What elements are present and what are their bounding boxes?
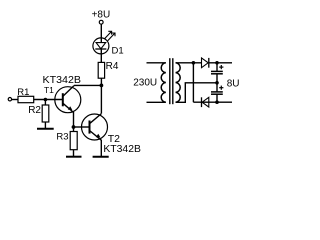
- wire input to R1: [12, 99, 18, 101]
- wire +8V to D1: [100, 24, 102, 38]
- ground under R2: [37, 128, 54, 130]
- wire D1 to R4: [100, 54, 102, 63]
- LED D1: [93, 38, 109, 54]
- node junction R1/R2: [44, 98, 48, 102]
- resistor R2: [42, 105, 49, 122]
- wire diode D2 to C1 node: [209, 62, 232, 64]
- wire R2 to ground: [44, 122, 46, 129]
- terminal +8V: [99, 20, 103, 24]
- svg-text:R3: R3: [56, 132, 68, 143]
- transformer TR primary lead bottom: [147, 101, 166, 103]
- svg-text:T1: T1: [44, 85, 54, 95]
- svg-text:8U: 8U: [227, 79, 240, 90]
- wire bottom rail: [193, 101, 232, 103]
- node between capacitors: [215, 81, 219, 85]
- transformer primary winding: [161, 63, 166, 103]
- transistor T2: [82, 114, 108, 141]
- diode D2 (top, pointing right): [202, 58, 209, 68]
- wire T2 collector up: [100, 85, 102, 113]
- wire to T2 base: [74, 126, 90, 128]
- ground under R3: [66, 156, 82, 158]
- ground under T2: [93, 156, 109, 158]
- transformer TR primary lead top: [147, 62, 166, 64]
- wire vertical secondary to bottom rail: [192, 63, 194, 102]
- svg-text:D1: D1: [112, 45, 124, 56]
- wire T1 emitter down: [73, 112, 75, 127]
- svg-text:KT342B: KT342B: [43, 75, 82, 86]
- svg-text:KT342B: KT342B: [103, 144, 141, 155]
- transformer core: [169, 58, 171, 104]
- wire T2 emitter down: [100, 140, 102, 157]
- diode D3 (bottom, pointing left): [202, 97, 209, 107]
- wire R4 to node: [100, 78, 102, 85]
- wire R3 lead: [73, 127, 75, 132]
- svg-text:R2: R2: [28, 105, 41, 116]
- svg-text:230U: 230U: [133, 78, 157, 89]
- transformer secondary winding: [176, 63, 181, 103]
- wire collector to R4 node: [74, 84, 101, 86]
- svg-text:R4: R4: [106, 61, 119, 72]
- node C1 top: [215, 61, 219, 65]
- plus C2: [219, 86, 223, 90]
- wire R1 to T1 base: [34, 99, 63, 101]
- wire secondary top: [176, 62, 202, 64]
- resistor R1: [18, 96, 34, 102]
- plus C1: [219, 65, 223, 69]
- wire middle (secondary bottom to cap midpoint): [176, 83, 217, 103]
- capacitor C2: [211, 83, 223, 102]
- wire R3 to ground: [73, 150, 75, 157]
- wire R2 lead: [44, 100, 46, 106]
- node R4 / T1 collector / T2 collector: [100, 84, 104, 88]
- LED arrows: [104, 31, 115, 40]
- node secondary top / vertical: [192, 61, 196, 65]
- svg-text:R1: R1: [17, 87, 29, 98]
- node T1 emitter / R3 / T2 base: [72, 125, 76, 129]
- svg-text:+8U: +8U: [92, 10, 111, 21]
- transistor T1: [55, 86, 81, 113]
- node C2 bottom: [215, 100, 219, 104]
- input terminal: [8, 98, 11, 101]
- resistor R3: [70, 132, 77, 150]
- resistor R4: [98, 62, 104, 78]
- capacitor C1: [211, 63, 223, 83]
